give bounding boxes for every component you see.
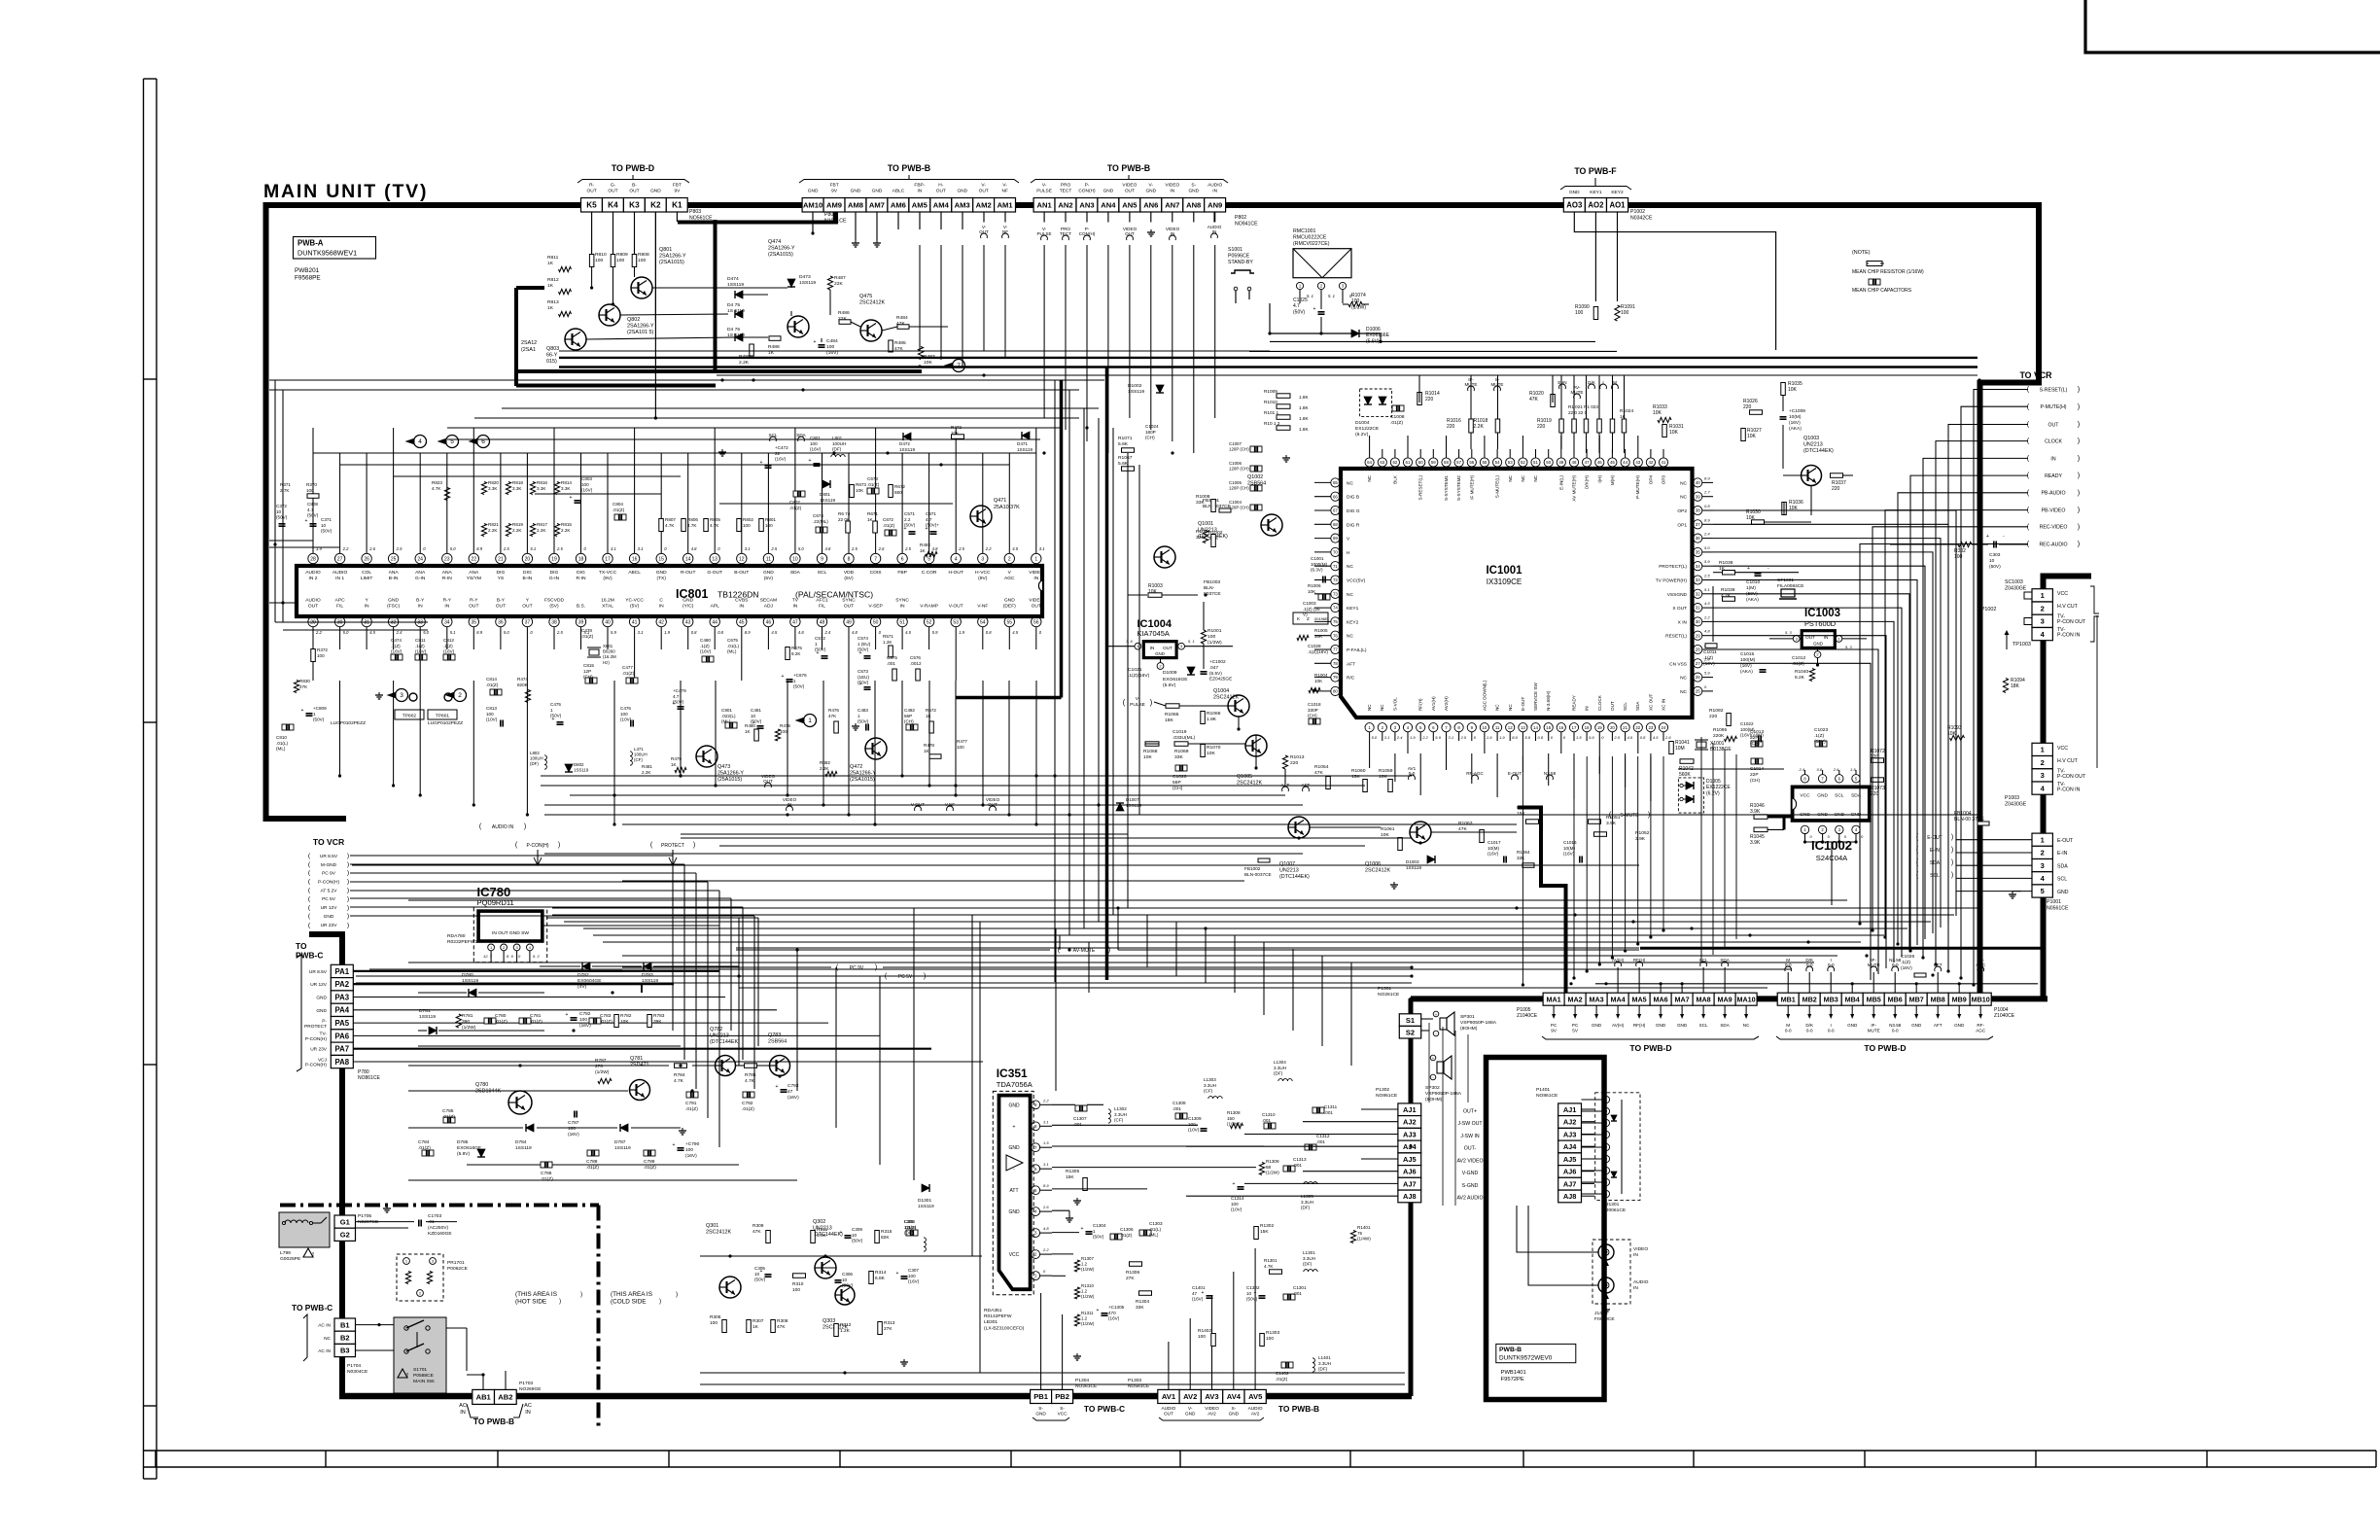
wire bundle IC801 bottom long drops bbox=[339, 681, 341, 776]
svg-text:N3.58: N3.58 bbox=[1889, 1023, 1902, 1028]
svg-text:100: 100 bbox=[1231, 1202, 1239, 1207]
IC1001 pin 33 bbox=[1694, 576, 1702, 584]
svg-text:AN3: AN3 bbox=[1079, 201, 1094, 210]
svg-text:3.9K: 3.9K bbox=[1606, 821, 1617, 826]
svg-text:.01(Z): .01(Z) bbox=[530, 1019, 542, 1025]
svg-text:(: ( bbox=[1123, 698, 1126, 707]
svg-text:R313: R313 bbox=[884, 1320, 895, 1326]
resistor R484 bbox=[897, 325, 909, 330]
svg-text:R1008: R1008 bbox=[1196, 494, 1210, 500]
speaker SP301 bbox=[1440, 1018, 1447, 1030]
svg-text:(16V): (16V) bbox=[1563, 852, 1575, 857]
svg-text:(PAL/SECAM/NTSC): (PAL/SECAM/NTSC) bbox=[795, 590, 873, 600]
svg-text:R483: R483 bbox=[924, 354, 935, 360]
svg-text:SP302: SP302 bbox=[1425, 1085, 1440, 1091]
svg-text:PST600D: PST600D bbox=[1804, 619, 1836, 628]
svg-text:S-MUTE: S-MUTE bbox=[1620, 813, 1639, 819]
svg-text:100: 100 bbox=[638, 258, 646, 263]
svg-text:SDA: SDA bbox=[1930, 860, 1941, 866]
svg-text:R1033: R1033 bbox=[1653, 404, 1667, 410]
svg-text:C783: C783 bbox=[600, 1013, 612, 1019]
svg-text:.1(Z): .1(Z) bbox=[391, 644, 401, 648]
resistor R785 bbox=[745, 1064, 757, 1068]
svg-text:1: 1 bbox=[2041, 835, 2045, 844]
svg-text:10K: 10K bbox=[1746, 515, 1756, 521]
resistor R1402 bbox=[1211, 1334, 1216, 1347]
svg-text:YS/YM: YS/YM bbox=[467, 576, 481, 581]
svg-text:10K: 10K bbox=[1314, 679, 1323, 683]
svg-text:8.9: 8.9 bbox=[1704, 517, 1710, 522]
svg-text:47K: 47K bbox=[1314, 770, 1323, 776]
svg-text:1: 1 bbox=[550, 708, 553, 713]
thick box RGB drivers Q801-Q803 bbox=[714, 220, 717, 371]
svg-text:AC: AC bbox=[524, 1403, 532, 1409]
svg-text:OUT: OUT bbox=[979, 189, 989, 194]
svg-text:D4 75: D4 75 bbox=[727, 302, 740, 308]
IC801 pin 11 bbox=[763, 553, 773, 563]
svg-text:G-IN: G-IN bbox=[549, 576, 560, 581]
wire bundle mid verticals to band bbox=[738, 918, 740, 1066]
svg-text:AN6: AN6 bbox=[1143, 201, 1158, 210]
svg-text:(CF): (CF) bbox=[1114, 1118, 1124, 1123]
svg-text:R1004: R1004 bbox=[1314, 673, 1328, 678]
svg-text:PA6: PA6 bbox=[335, 1032, 350, 1040]
capacitor C1307 bbox=[1075, 1105, 1087, 1111]
stub E-OUT band bbox=[1512, 775, 1519, 780]
svg-text:AGC: AGC bbox=[1976, 1028, 1986, 1032]
svg-text:MA5: MA5 bbox=[1632, 995, 1647, 1003]
svg-text:1SS119: 1SS119 bbox=[1017, 447, 1032, 452]
svg-text:2SD1944K: 2SD1944K bbox=[475, 1089, 501, 1095]
svg-text:10: 10 bbox=[792, 556, 798, 562]
svg-text:4.5: 4.5 bbox=[1653, 735, 1659, 740]
svg-text:R1038: R1038 bbox=[1719, 560, 1733, 566]
svg-text:X IN: X IN bbox=[1678, 619, 1688, 625]
svg-text:MA4: MA4 bbox=[1611, 995, 1626, 1003]
wire bundle lower band horizontals bbox=[552, 907, 1977, 909]
svg-text:100: 100 bbox=[908, 1274, 916, 1278]
svg-text:(50V): (50V) bbox=[754, 1277, 766, 1282]
transistor Q474 bbox=[787, 316, 809, 337]
svg-text:TO: TO bbox=[296, 941, 307, 951]
svg-text:75: 75 bbox=[1333, 619, 1338, 624]
svg-text:MA3: MA3 bbox=[1590, 995, 1604, 1003]
resistor R1008 bbox=[1211, 500, 1216, 512]
diode D473 bbox=[787, 279, 795, 287]
svg-text:OUT: OUT bbox=[522, 603, 532, 609]
IC1001 pin 22 bbox=[1633, 723, 1642, 732]
transistor Q1001 bbox=[1154, 546, 1175, 568]
svg-text:R1071: R1071 bbox=[1118, 436, 1133, 441]
resistor R781 bbox=[456, 1014, 461, 1028]
svg-text:17: 17 bbox=[1572, 725, 1577, 730]
main switch S1701 bbox=[394, 1317, 446, 1393]
svg-text:4.8: 4.8 bbox=[932, 546, 938, 551]
IC1001 pin 75 bbox=[1331, 617, 1340, 626]
svg-text:P1004: P1004 bbox=[1994, 1007, 2009, 1013]
connector P1703 AB1 AB2 bbox=[472, 1389, 495, 1404]
svg-text:0.8: 0.8 bbox=[717, 630, 723, 635]
svg-text:TO PWB-F: TO PWB-F bbox=[1574, 166, 1617, 176]
svg-text:AB2: AB2 bbox=[498, 1393, 512, 1402]
svg-text:3.9K: 3.9K bbox=[1750, 840, 1761, 846]
transistor Q783 bbox=[770, 1056, 790, 1076]
svg-text:S-: S- bbox=[1060, 1406, 1065, 1411]
transistor Q475 bbox=[860, 320, 882, 341]
svg-text:B-Y: B-Y bbox=[416, 598, 425, 604]
svg-text:S-SYSTEM2: S-SYSTEM2 bbox=[1456, 475, 1461, 501]
svg-text:D781: D781 bbox=[419, 1008, 431, 1014]
svg-text:100: 100 bbox=[810, 441, 818, 446]
svg-text:56: 56 bbox=[1033, 619, 1039, 625]
svg-text:TECT: TECT bbox=[1060, 189, 1072, 194]
svg-text:1K: 1K bbox=[547, 283, 554, 289]
svg-text:FIL: FIL bbox=[819, 603, 825, 609]
svg-text:(DF): (DF) bbox=[832, 447, 842, 452]
IC1001 pin 35 bbox=[1694, 547, 1702, 556]
svg-text:D1005: D1005 bbox=[1706, 779, 1721, 785]
svg-text:C571: C571 bbox=[904, 511, 915, 516]
svg-text:NC: NC bbox=[1495, 704, 1500, 711]
svg-text:1.2K: 1.2K bbox=[840, 1328, 851, 1334]
svg-text:120P (CH): 120P (CH) bbox=[1229, 486, 1249, 491]
resistor R483 bbox=[918, 347, 923, 360]
resistor R1090 bbox=[1593, 307, 1598, 320]
svg-text:): ) bbox=[524, 823, 526, 830]
capacitor C1313 bbox=[1283, 1166, 1295, 1172]
IC1001 pin 63 bbox=[1378, 458, 1386, 467]
svg-text:65: 65 bbox=[1333, 480, 1338, 485]
svg-text:P-MUTE(H): P-MUTE(H) bbox=[1635, 475, 1640, 499]
svg-text:PA5: PA5 bbox=[335, 1019, 350, 1028]
svg-text:470: 470 bbox=[1108, 1311, 1116, 1315]
resistor R1034 dot bbox=[1312, 688, 1315, 691]
IC801 pin 44 bbox=[710, 616, 719, 626]
IC801 pin 15 bbox=[656, 553, 666, 563]
IC351 pin 4 bbox=[1032, 1207, 1040, 1216]
capacitor C791 bbox=[686, 1092, 698, 1098]
IC780 pin 4 bbox=[527, 944, 534, 951]
svg-text:220: 220 bbox=[1743, 404, 1752, 410]
svg-text:B-: B- bbox=[632, 183, 637, 189]
svg-text:+: + bbox=[1013, 1124, 1016, 1130]
svg-text:1K: 1K bbox=[752, 1324, 759, 1330]
svg-text:E-IN: E-IN bbox=[2057, 851, 2068, 857]
transistor Q1005 bbox=[1245, 735, 1267, 756]
svg-text:10K: 10K bbox=[1314, 634, 1323, 639]
svg-text:CLOCK: CLOCK bbox=[2045, 439, 2062, 445]
svg-text:(50V): (50V) bbox=[321, 529, 332, 534]
svg-text:C803: C803 bbox=[581, 476, 592, 481]
svg-text:+: + bbox=[776, 1084, 779, 1090]
svg-text:C1304: C1304 bbox=[1093, 1223, 1106, 1228]
svg-text:68: 68 bbox=[1333, 522, 1338, 527]
svg-text:100: 100 bbox=[780, 729, 787, 734]
svg-text:MB6: MB6 bbox=[1888, 995, 1903, 1003]
svg-text:VDD: VDD bbox=[844, 570, 855, 576]
svg-text:IF-: IF- bbox=[1871, 1023, 1876, 1028]
IC1001 pin 77 bbox=[1331, 645, 1340, 653]
svg-text:B-OUT: B-OUT bbox=[734, 570, 749, 576]
IC1001 pin 29 bbox=[1694, 631, 1702, 640]
svg-text:R1308: R1308 bbox=[1227, 1110, 1241, 1115]
svg-text:RF(H): RF(H) bbox=[1418, 698, 1423, 711]
svg-text:P780: P780 bbox=[358, 1069, 369, 1075]
svg-text:IN: IN bbox=[418, 603, 423, 609]
svg-text:270: 270 bbox=[595, 1064, 603, 1069]
wire bundle resistor stubs to bus above IC1001 bbox=[1470, 375, 1472, 402]
IC1001 pin 61 bbox=[1403, 458, 1412, 467]
svg-text:Z0430GE: Z0430GE bbox=[2005, 801, 2027, 807]
svg-text:10: 10 bbox=[754, 1272, 760, 1277]
svg-text:(16V): (16V) bbox=[415, 649, 427, 654]
IC1002 pin 2 bbox=[1818, 825, 1826, 833]
connector P1002 AO3-AO1 bbox=[1563, 198, 1585, 213]
svg-text:R475: R475 bbox=[780, 723, 790, 728]
svg-text:P1401: P1401 bbox=[1536, 1087, 1550, 1093]
transistor Q473 bbox=[696, 746, 717, 767]
IC801 pin 39 bbox=[576, 616, 585, 626]
svg-text:10: 10 bbox=[321, 523, 327, 528]
svg-text:.1(Z)(16V): .1(Z)(16V) bbox=[1308, 649, 1328, 654]
IC1001 pin 17 bbox=[1569, 723, 1578, 732]
svg-text:12UH: 12UH bbox=[904, 1225, 916, 1230]
svg-text:(10V): (10V) bbox=[1188, 1128, 1200, 1133]
resistor R1303 bbox=[1260, 1334, 1265, 1347]
svg-text:MUTE: MUTE bbox=[1570, 390, 1583, 395]
svg-text:IC1001: IC1001 bbox=[1486, 565, 1522, 577]
svg-text:AN4: AN4 bbox=[1101, 201, 1116, 210]
svg-text:47K: 47K bbox=[828, 714, 837, 718]
svg-text:2.6: 2.6 bbox=[368, 546, 375, 551]
svg-text:16: 16 bbox=[632, 556, 638, 562]
svg-text:.01(Z): .01(Z) bbox=[541, 1176, 553, 1182]
svg-text:2.2K: 2.2K bbox=[820, 766, 829, 771]
svg-text:AJ1: AJ1 bbox=[1403, 1105, 1417, 1114]
svg-text:22: 22 bbox=[472, 556, 477, 562]
svg-text:0-0: 0-0 bbox=[1806, 962, 1813, 967]
svg-text:33K: 33K bbox=[1517, 856, 1525, 860]
svg-text:G-OUT: G-OUT bbox=[707, 570, 722, 576]
IC1001 pin 44 bbox=[1621, 458, 1629, 467]
svg-text:R1046: R1046 bbox=[1750, 803, 1765, 809]
svg-text:9V: 9V bbox=[1551, 1028, 1557, 1032]
svg-text:10K: 10K bbox=[1653, 410, 1662, 416]
svg-text:GND: GND bbox=[1954, 1023, 1965, 1028]
svg-text:3.3UH: 3.3UH bbox=[1114, 1112, 1127, 1117]
svg-text:100: 100 bbox=[685, 1147, 693, 1153]
svg-text:L1302: L1302 bbox=[1114, 1106, 1127, 1111]
brace TO PWB-D under MA bbox=[1542, 1036, 1759, 1039]
svg-text:R-IN: R-IN bbox=[576, 576, 586, 581]
resistor R486 bbox=[839, 320, 851, 325]
ground TP bbox=[378, 692, 380, 695]
svg-text:36: 36 bbox=[498, 619, 504, 625]
svg-text:R1005: R1005 bbox=[1314, 628, 1328, 633]
svg-text:.01(Z): .01(Z) bbox=[867, 482, 880, 487]
resistor R1042 bbox=[1680, 759, 1694, 764]
svg-text:): ) bbox=[2078, 402, 2080, 410]
svg-text:100: 100 bbox=[1266, 1336, 1274, 1342]
svg-text:R481: R481 bbox=[642, 764, 652, 769]
svg-text:R1026: R1026 bbox=[1743, 399, 1758, 404]
capacitor C1311 bbox=[1312, 1107, 1324, 1113]
svg-text:V-: V- bbox=[1002, 183, 1007, 189]
capacitor C790 bbox=[678, 1147, 684, 1149]
connector P1304 PB1 PB2 bbox=[1031, 1389, 1052, 1403]
svg-text:D1009: D1009 bbox=[1163, 670, 1177, 676]
wire AO drops bbox=[1574, 212, 1775, 350]
svg-text:(8OHM): (8OHM) bbox=[1425, 1097, 1443, 1102]
IC780 pin 3 bbox=[513, 944, 520, 951]
svg-text:390: 390 bbox=[462, 1019, 470, 1025]
svg-text:1K: 1K bbox=[745, 729, 752, 734]
svg-text:D/K: D/K bbox=[1588, 380, 1596, 385]
svg-text:VCC: VCC bbox=[2057, 591, 2068, 597]
svg-text:NO941CE: NO941CE bbox=[1235, 221, 1258, 227]
svg-text:OUT: OUT bbox=[763, 779, 773, 784]
bracket SC1003 bbox=[2090, 586, 2099, 613]
capacitors C1004-C1007 column bbox=[1250, 446, 1262, 452]
svg-text:C1703: C1703 bbox=[428, 1213, 441, 1219]
capacitor C784 bbox=[422, 1150, 434, 1156]
svg-text:V-GND: V-GND bbox=[1462, 1171, 1479, 1176]
svg-text:1K: 1K bbox=[926, 714, 932, 718]
svg-text:5. 2: 5. 2 bbox=[533, 954, 540, 959]
svg-text:10: 10 bbox=[852, 1233, 857, 1238]
svg-text:5. 3: 5. 3 bbox=[1785, 630, 1792, 635]
svg-text:CON(H): CON(H) bbox=[1078, 189, 1096, 194]
svg-text:GND: GND bbox=[1004, 598, 1015, 604]
svg-text:7. 6: 7. 6 bbox=[1126, 639, 1133, 644]
svg-text:AUDIO: AUDIO bbox=[1633, 1279, 1649, 1285]
svg-text:H-VCC: H-VCC bbox=[975, 570, 991, 576]
thick mid verticals bbox=[1105, 367, 1109, 980]
svg-text:C575: C575 bbox=[887, 655, 897, 660]
svg-text:31: 31 bbox=[1696, 606, 1700, 611]
svg-text:3.1: 3.1 bbox=[1043, 1162, 1049, 1167]
svg-text:C1008: C1008 bbox=[1390, 414, 1405, 420]
medium wire MB riser bbox=[1640, 948, 2043, 996]
svg-text:24: 24 bbox=[1662, 725, 1666, 730]
svg-text:Q1001: Q1001 bbox=[1198, 521, 1213, 527]
wire bundle left stub verticals down bbox=[350, 855, 673, 857]
svg-text:): ) bbox=[347, 895, 349, 902]
IC780 pin 2 bbox=[501, 944, 507, 951]
IC1001 pin 59 bbox=[1429, 458, 1438, 467]
svg-text:33K: 33K bbox=[1136, 1305, 1144, 1311]
wire IC780 outputs right bbox=[542, 925, 719, 927]
svg-text:TV POWER(H): TV POWER(H) bbox=[1656, 578, 1688, 584]
svg-text:52: 52 bbox=[1521, 460, 1525, 465]
svg-text:OUT: OUT bbox=[1125, 189, 1135, 194]
resistor R1072 bbox=[1872, 758, 1884, 763]
svg-text:5. 1: 5. 1 bbox=[1328, 294, 1335, 298]
svg-text:5.0: 5.0 bbox=[450, 546, 456, 551]
svg-text:(8OHM): (8OHM) bbox=[1460, 1026, 1478, 1032]
svg-text:10K: 10K bbox=[1148, 589, 1158, 595]
svg-text:REC-AUDIO: REC-AUDIO bbox=[2039, 542, 2067, 547]
svg-text:REC-VIDEO: REC-VIDEO bbox=[2040, 525, 2068, 531]
resistors above IC1001 R1016 R1018 R1019 R1021 R1022 R1023 bbox=[1469, 419, 1474, 433]
svg-text:5: 5 bbox=[2041, 887, 2045, 895]
svg-text:AO1: AO1 bbox=[1609, 201, 1626, 210]
svg-text:4.8: 4.8 bbox=[852, 630, 857, 635]
IC IC1001 IX3109CE body bbox=[1341, 469, 1693, 717]
svg-text:2.7K: 2.7K bbox=[280, 488, 290, 493]
svg-text:+: + bbox=[817, 650, 820, 656]
svg-text:3.9K: 3.9K bbox=[1635, 836, 1646, 842]
IC1001 pin 27 bbox=[1694, 659, 1702, 668]
stub AFT bottom bbox=[1282, 787, 1289, 791]
svg-text:V-OUT: V-OUT bbox=[949, 603, 963, 609]
svg-text:33K: 33K bbox=[1196, 535, 1205, 541]
diode D801 bbox=[822, 480, 830, 488]
IC1001 pin 62 bbox=[1390, 458, 1399, 467]
IC1001 pin 32 bbox=[1694, 589, 1702, 598]
svg-text:10K: 10K bbox=[1747, 434, 1757, 439]
svg-text:R807: R807 bbox=[665, 517, 676, 522]
capacitor C1023 bbox=[1815, 741, 1827, 747]
svg-text:AV5: AV5 bbox=[1248, 1392, 1263, 1401]
svg-text:+: + bbox=[1202, 1290, 1205, 1296]
svg-text:): ) bbox=[559, 1298, 561, 1305]
transistor Q1006 bbox=[1410, 822, 1431, 843]
svg-text:VIDEO: VIDEO bbox=[1633, 1246, 1648, 1252]
svg-text:(16V): (16V) bbox=[1740, 663, 1752, 669]
svg-text:P1705: P1705 bbox=[358, 1213, 371, 1219]
svg-text:EXO615GE: EXO615GE bbox=[1163, 677, 1188, 682]
svg-text:25A10 37K: 25A10 37K bbox=[994, 505, 1020, 510]
svg-text:(CH): (CH) bbox=[1145, 436, 1155, 440]
svg-text:AJ5: AJ5 bbox=[1563, 1155, 1577, 1164]
svg-text:32: 32 bbox=[1696, 591, 1700, 596]
svg-text:.001: .001 bbox=[1316, 1139, 1325, 1144]
svg-text:R1040: R1040 bbox=[1795, 669, 1808, 675]
svg-text:(2SA1015): (2SA1015) bbox=[659, 260, 684, 265]
svg-text:+: + bbox=[830, 1275, 833, 1280]
svg-text:(2SA1: (2SA1 bbox=[521, 347, 536, 353]
svg-text:52: 52 bbox=[927, 619, 932, 625]
svg-text:(DF): (DF) bbox=[530, 761, 539, 766]
transistor Q301 bbox=[719, 1277, 741, 1298]
svg-text:10K: 10K bbox=[1379, 774, 1387, 780]
resistor R1038 bbox=[1723, 571, 1735, 576]
svg-text:100: 100 bbox=[620, 712, 628, 717]
svg-text:2.2K: 2.2K bbox=[537, 528, 546, 533]
stub P-CON below AN3 bbox=[1084, 235, 1091, 240]
svg-text:3.3UH: 3.3UH bbox=[1318, 1361, 1331, 1366]
svg-text:0.8: 0.8 bbox=[1538, 735, 1544, 740]
svg-text:GND: GND bbox=[656, 570, 667, 576]
svg-text:H-: H- bbox=[938, 183, 943, 189]
connector J1301 pin column bbox=[1595, 1093, 1640, 1201]
svg-text:66: 66 bbox=[1333, 494, 1338, 499]
svg-text:IN: IN bbox=[659, 603, 664, 609]
stub E-IN bbox=[1559, 384, 1566, 389]
inductor L1305 bbox=[1304, 1182, 1309, 1184]
svg-text:NF: NF bbox=[1002, 229, 1008, 234]
svg-text:Q302: Q302 bbox=[813, 1219, 825, 1225]
svg-text:+: + bbox=[1435, 1012, 1438, 1017]
IC801 pin 47 bbox=[790, 616, 800, 626]
diode pair D1005 EX1222CE bbox=[1678, 778, 1703, 813]
svg-text:+C809: +C809 bbox=[313, 706, 327, 711]
IC1001 pin 20 bbox=[1608, 723, 1617, 732]
resistor R1302 bbox=[1254, 1227, 1259, 1240]
svg-text:AJ1: AJ1 bbox=[1563, 1105, 1577, 1114]
resistors R802 R801 bbox=[737, 519, 742, 532]
